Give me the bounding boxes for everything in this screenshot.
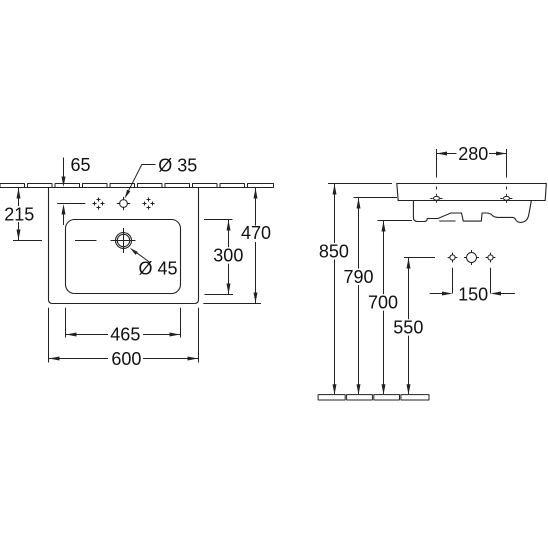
- svg-text:790: 790: [344, 267, 374, 287]
- dimension 550: [407, 258, 411, 395]
- drain centre line segments: [13, 240, 97, 242]
- wall tiles row: [0, 184, 274, 188]
- dimension 790: [357, 198, 361, 395]
- basin outer outline (plan): [49, 188, 199, 304]
- dimension 280: [437, 152, 507, 156]
- basin underside silhouette (front): [413, 201, 531, 223]
- drain circles D45: [116, 233, 132, 249]
- leader D35: [125, 165, 156, 199]
- dimension 150 extension lines: [453, 268, 491, 294]
- svg-text:700: 700: [368, 293, 398, 313]
- svg-text:550: 550: [393, 318, 423, 338]
- svg-text:280: 280: [458, 144, 488, 164]
- svg-text:600: 600: [111, 349, 141, 369]
- drain crosshair: [111, 228, 136, 253]
- dimension 470: [254, 188, 258, 303]
- svg-text:150: 150: [458, 285, 488, 305]
- dimension 150: [430, 292, 515, 296]
- tap hole cross left (4 plus marks): [93, 198, 105, 210]
- dimension 600: [49, 357, 198, 361]
- svg-text:Ø 35: Ø 35: [158, 155, 197, 175]
- mounting hole right: [500, 187, 512, 203]
- tick 850: [328, 183, 392, 185]
- underside back edge: [439, 220, 455, 222]
- basin inner bowl (plan): [66, 220, 181, 294]
- dimension 700: [382, 221, 386, 395]
- dimension 850: [333, 184, 337, 395]
- tick 700: [378, 220, 413, 222]
- dimension 300: [227, 220, 231, 294]
- svg-text:215: 215: [4, 204, 34, 224]
- mounting hole left: [430, 187, 442, 203]
- dimension 280 extension lines: [437, 149, 507, 178]
- wall hole right (front): [486, 253, 496, 263]
- dimension 470 extension bottom: [203, 303, 261, 305]
- svg-text:465: 465: [110, 324, 140, 344]
- tick 790: [354, 197, 398, 199]
- dimension 215: [17, 188, 21, 240]
- svg-text:850: 850: [319, 242, 349, 262]
- basin rim (front): [397, 184, 547, 201]
- faucet centre line: [57, 203, 85, 205]
- tap hole cross right (4 plus marks): [143, 198, 155, 210]
- svg-text:300: 300: [213, 246, 243, 266]
- floor tiles: [318, 395, 429, 400]
- wall line (plan view): [0, 187, 256, 189]
- tick 550: [404, 257, 435, 259]
- dimension 65: [62, 158, 66, 226]
- leader D45: [130, 248, 150, 263]
- wall hole centre (front): [464, 250, 479, 265]
- svg-text:Ø 45: Ø 45: [139, 258, 178, 278]
- extension lines below basin: [49, 308, 199, 363]
- dimension 300 extension ticks: [204, 220, 233, 295]
- svg-text:65: 65: [71, 155, 91, 175]
- dimension 465: [66, 333, 180, 337]
- wall hole left (front): [448, 253, 458, 263]
- tap hole circle D35: [117, 197, 130, 210]
- svg-text:470: 470: [241, 223, 271, 243]
